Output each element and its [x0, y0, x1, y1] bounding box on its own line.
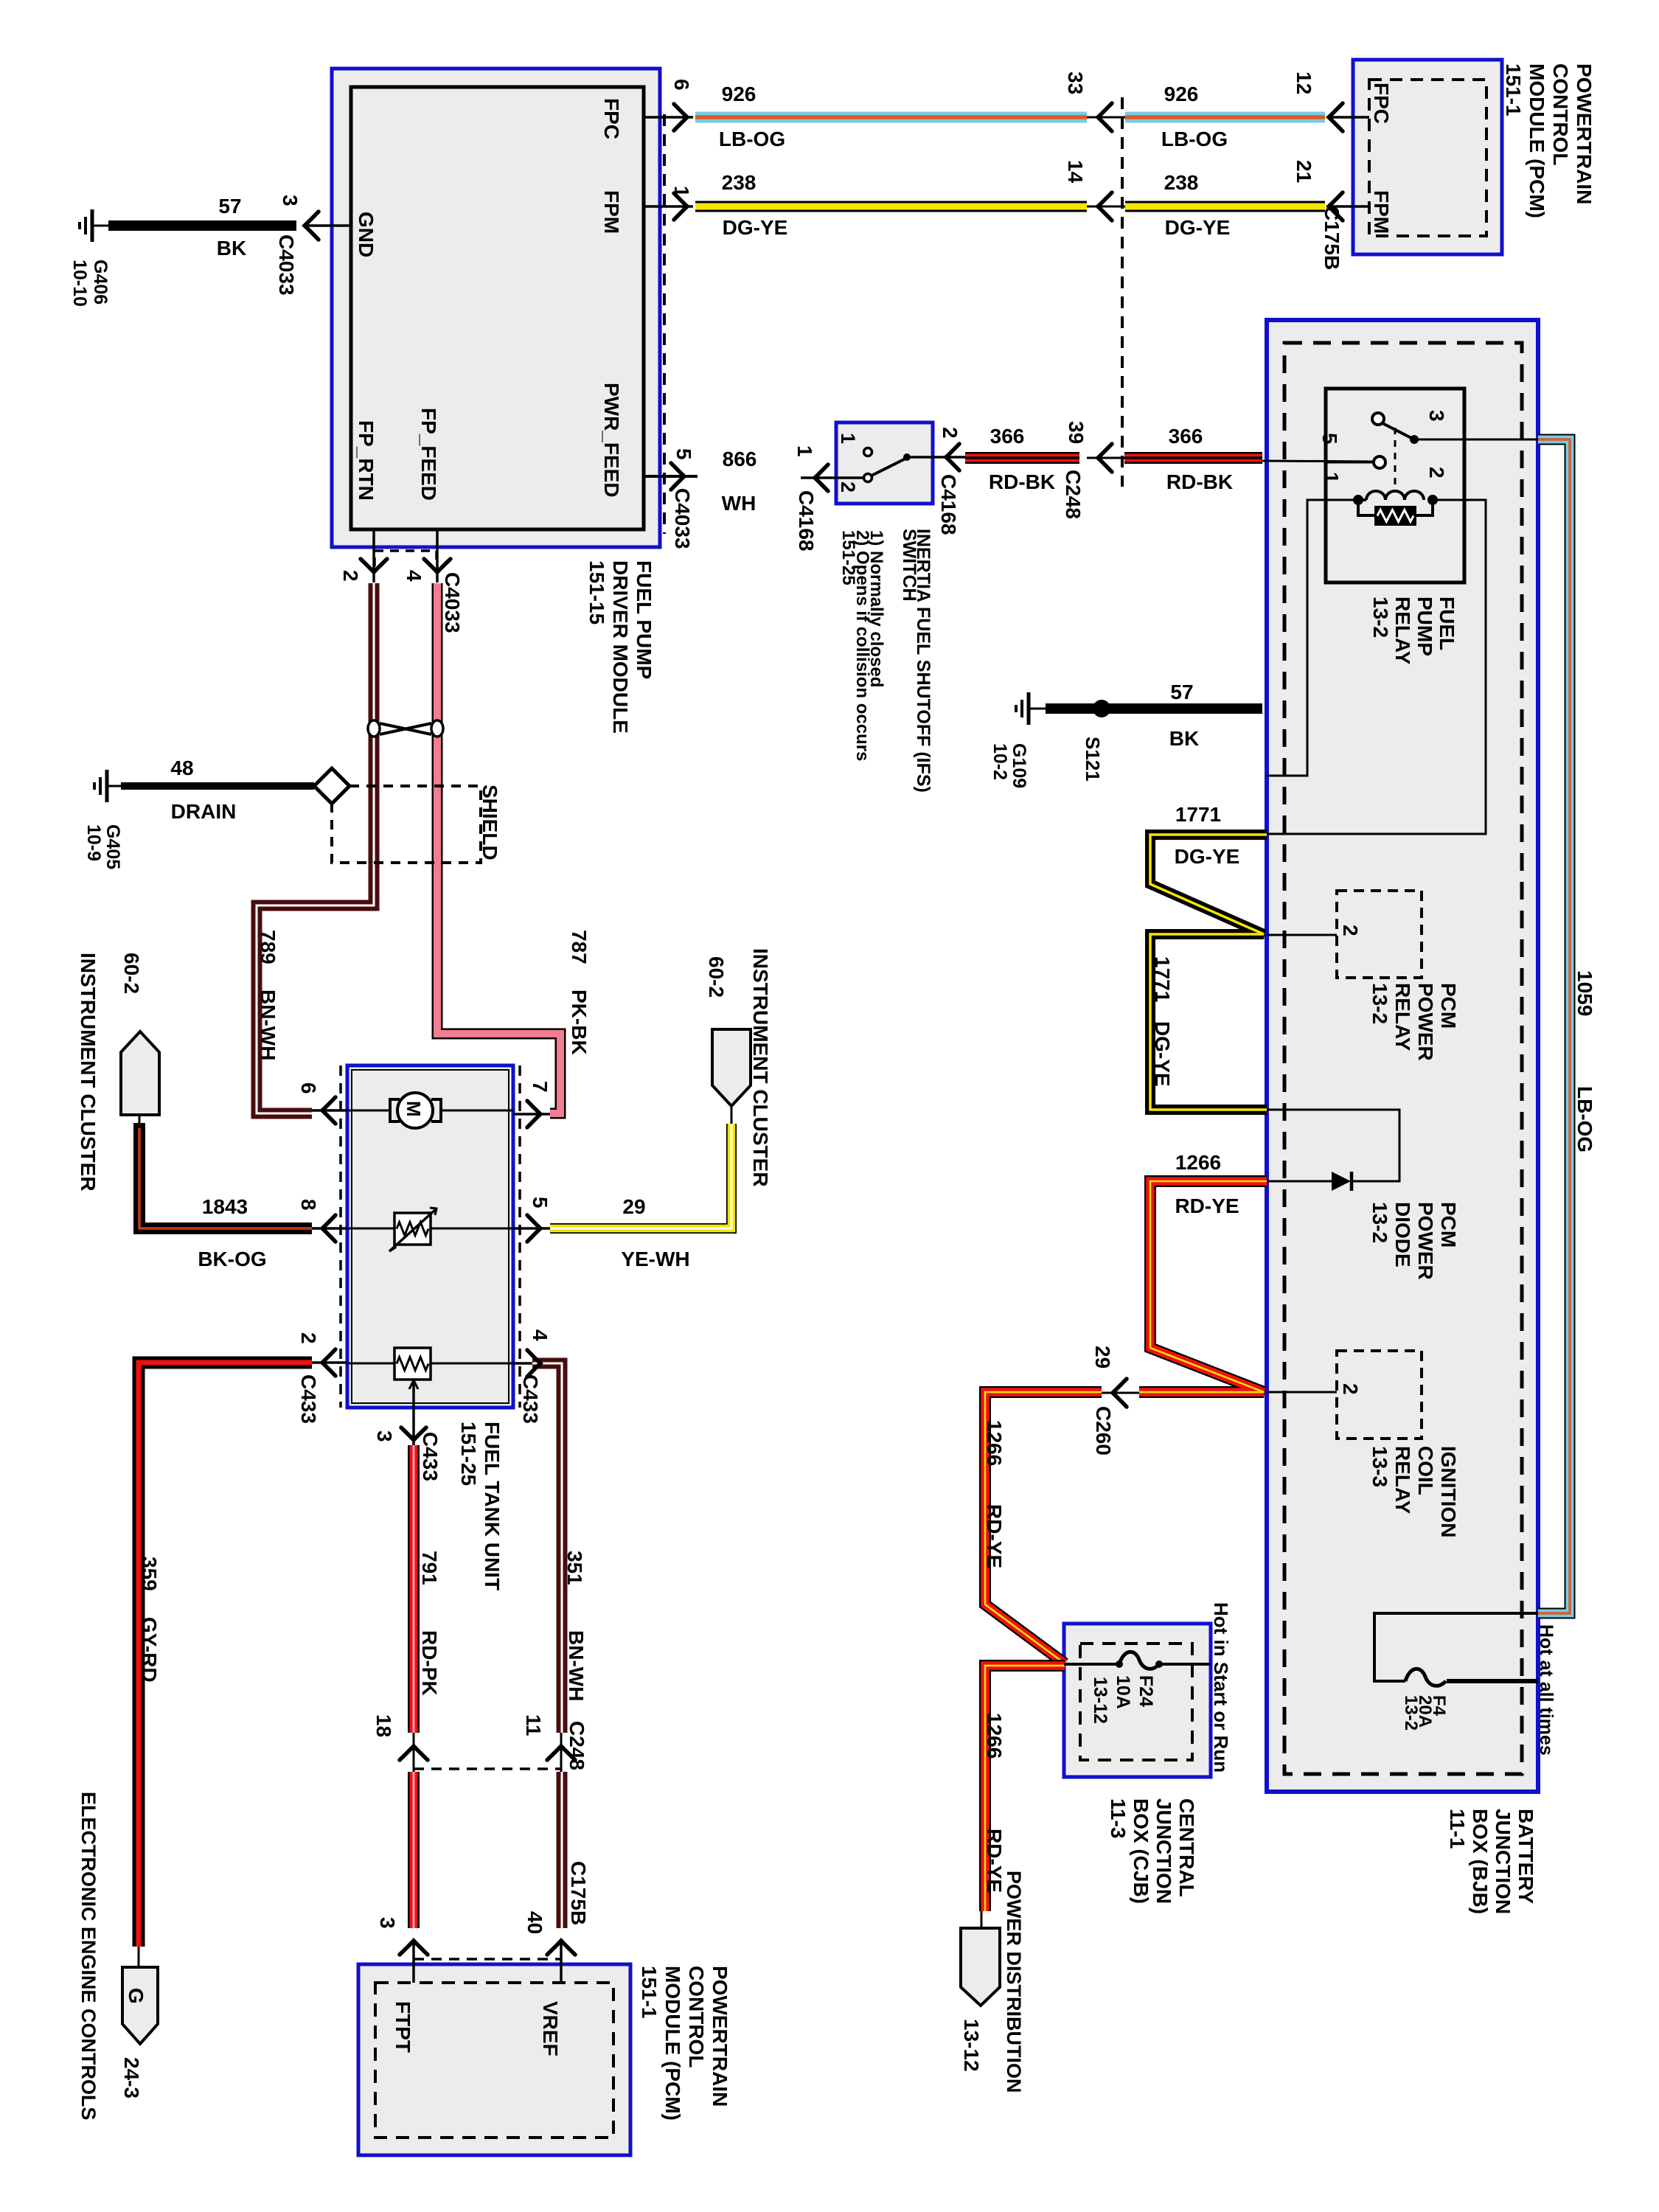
diode PCM power diode [1332, 1172, 1352, 1191]
wire 926 LB-OG segment 2 [1125, 112, 1325, 123]
label wire 238 color seg2 [1165, 216, 1231, 239]
wire FPM pin lead PCM [1329, 205, 1369, 208]
svg-text:Hot in Start or Run: Hot in Start or Run [1210, 1602, 1232, 1773]
wire FPC pin lead PCM [1329, 116, 1369, 119]
label wire 238 color seg1 [723, 216, 788, 239]
svg-text:DG-YE: DG-YE [1175, 845, 1240, 868]
label wire 366 color seg2 [1166, 470, 1233, 493]
label wire 238 number seg2 [1164, 171, 1199, 194]
wire tank pin 8 lead [312, 1227, 347, 1230]
label splice S121 [1082, 737, 1104, 782]
label pin 2 PCM power relay [1339, 925, 1362, 936]
svg-text:60-2: 60-2 [120, 953, 143, 994]
wire tank pin 5 lead [513, 1227, 550, 1230]
label connector C175B bottom [567, 1861, 590, 1925]
label wire 29 number [622, 1195, 645, 1218]
label pin 2 ignition coil relay [1339, 1383, 1362, 1395]
svg-text:G405: G405 [102, 824, 123, 869]
wire 238 DG-YE segment 1 [695, 201, 1087, 212]
arrow tank pin 3 C433 [401, 1427, 426, 1440]
svg-text:DG-YE: DG-YE [1151, 1021, 1174, 1087]
svg-text:BK: BK [1169, 727, 1199, 750]
wire 351 BN-WH upper [532, 1363, 562, 1733]
wire C260 arrow through line [1102, 1392, 1139, 1394]
relay K1 blade [1382, 423, 1464, 444]
wire 791 RD-PK upper [408, 1445, 420, 1733]
label wire 789 color [257, 990, 279, 1060]
label connector C260 [1092, 1406, 1115, 1455]
svg-text:14: 14 [1064, 160, 1087, 184]
label connector C4168 pin1 [795, 490, 818, 552]
svg-text:1266: 1266 [983, 1420, 1006, 1466]
module fuel tank unit box [347, 1065, 513, 1408]
relay K1 coil resistor [1358, 500, 1433, 526]
svg-text:791: 791 [418, 1551, 441, 1585]
wire F4 output to BJB edge [1447, 1679, 1538, 1683]
label connector C4033 at FP_FEED [441, 572, 464, 633]
svg-text:926: 926 [1164, 83, 1199, 105]
svg-text:2: 2 [1425, 467, 1448, 479]
wire 57 BK to G109 [1046, 703, 1262, 714]
label wire 57 color BK [217, 237, 246, 260]
wire VREF pin lead [560, 1939, 563, 1983]
svg-text:10-10: 10-10 [69, 260, 90, 307]
label offpage power distribution ref [960, 2019, 983, 2072]
label wire 1771 number 2 [1151, 956, 1174, 1002]
svg-text:LB-OG: LB-OG [1573, 1086, 1596, 1152]
svg-text:366: 366 [1169, 425, 1203, 448]
arrow GND C4033 pin 3 [305, 212, 319, 240]
label pin 2 IFS outside [939, 427, 961, 439]
label pin 18 [372, 1714, 395, 1737]
label wire 789 number [257, 930, 279, 964]
label module PCM bottom name [638, 1966, 731, 2121]
label fuse F24 name [1090, 1675, 1156, 1724]
wire 926 LB-OG segment 1 [695, 112, 1087, 123]
label wire 1266 color 2 [983, 1504, 1006, 1568]
connector boundary dashed line x1522 [1121, 97, 1124, 487]
svg-text:1771: 1771 [1175, 803, 1221, 826]
svg-text:57: 57 [218, 195, 241, 218]
svg-text:6: 6 [670, 79, 693, 91]
svg-text:C433: C433 [519, 1374, 542, 1424]
svg-text:3: 3 [279, 195, 302, 206]
svg-text:2: 2 [1339, 1383, 1362, 1395]
label wire 48 drain [171, 800, 237, 823]
wire 366 RD-BK segment 1 [965, 452, 1079, 464]
svg-text:BN-WH: BN-WH [257, 990, 279, 1060]
module PCM bottom inner dashed box [375, 1983, 613, 2138]
svg-text:RELAY: RELAY [1391, 1446, 1414, 1514]
label wire 926 number seg1 [722, 83, 757, 105]
label ground G405 [83, 824, 123, 869]
svg-text:1: 1 [670, 186, 693, 198]
arrow FPM FPDM pin 1 [674, 193, 687, 220]
offpage connector instrument cluster left [121, 1032, 159, 1115]
wire 791 RD-PK lower [408, 1772, 420, 1928]
label hot in start or run [1210, 1602, 1232, 1773]
label connector C248 bottom [566, 1721, 588, 1770]
arrow 926 at pin 33 [1098, 103, 1112, 131]
svg-text:13-2: 13-2 [1368, 983, 1391, 1024]
splice S121 [1093, 700, 1110, 717]
wire tank sender 2 line [347, 1363, 513, 1365]
svg-text:13-2: 13-2 [1368, 1202, 1391, 1243]
label wire 366 color seg1 [989, 470, 1055, 493]
svg-text:11-3: 11-3 [1107, 1798, 1130, 1839]
label pin 21 PCM [1293, 160, 1315, 183]
svg-text:10A: 10A [1113, 1675, 1133, 1709]
svg-text:INSTRUMENT CLUSTER: INSTRUMENT CLUSTER [77, 953, 100, 1192]
label pin 14 [1064, 160, 1087, 184]
svg-text:1266: 1266 [983, 1713, 1006, 1759]
svg-text:C4168: C4168 [795, 490, 818, 552]
svg-text:789: 789 [257, 930, 279, 964]
svg-text:IGNITION: IGNITION [1437, 1446, 1460, 1537]
label wire 1266 number 2 [983, 1420, 1006, 1466]
svg-text:351: 351 [563, 1551, 586, 1585]
wire 1266 RD-YE middle [985, 1392, 1102, 1663]
wire 366 lead to relay pin 5 [1262, 461, 1374, 462]
svg-text:48: 48 [170, 757, 193, 779]
svg-text:RD-PK: RD-PK [418, 1630, 441, 1696]
svg-text:DG-YE: DG-YE [1165, 216, 1231, 239]
switch IFS contact 1 circle [864, 448, 872, 456]
label pin GND [355, 212, 378, 257]
label offpage instrument cluster right [705, 948, 772, 1187]
label wire 359 number [138, 1557, 161, 1591]
arrow 1266 at pin 29 C260 [1113, 1379, 1127, 1407]
arrow IFS pin 2 C4168 [946, 444, 959, 470]
svg-text:21: 21 [1293, 160, 1315, 183]
svg-text:151-1: 151-1 [638, 1966, 661, 2019]
label relay PCM power relay name [1368, 983, 1460, 1061]
label ground G406 [69, 260, 111, 307]
ground G109 [1016, 692, 1046, 725]
label wire 791 number [418, 1551, 441, 1585]
svg-text:DRIVER MODULE: DRIVER MODULE [609, 560, 632, 734]
svg-text:CONTROL: CONTROL [685, 1966, 708, 2067]
svg-text:RD-BK: RD-BK [1166, 470, 1233, 493]
svg-text:FUEL: FUEL [1436, 597, 1458, 650]
label relay ignition coil relay name [1368, 1446, 1460, 1537]
label pin 5 FPDM [672, 448, 695, 460]
svg-text:13-2: 13-2 [1369, 597, 1392, 638]
arrow 791 at pin 18 C248 [400, 1746, 428, 1760]
relay K1 coil terminal 2 dot [1427, 495, 1438, 505]
svg-text:366: 366 [990, 425, 1025, 448]
label pin 2 FPDM [339, 570, 362, 582]
svg-text:Hot at all times: Hot at all times [1536, 1624, 1557, 1756]
label connector C433 right [519, 1374, 542, 1424]
wire relay pin 2 coil to 1771 exit [1267, 500, 1486, 834]
svg-text:POWER DISTRIBUTION: POWER DISTRIBUTION [1003, 1871, 1025, 2093]
wire 1266 pentagon lead [981, 1911, 983, 1928]
label wire 366 number seg1 [990, 425, 1025, 448]
label fuse F4 name [1401, 1695, 1449, 1731]
svg-text:RD-BK: RD-BK [989, 470, 1055, 493]
svg-text:10-9: 10-9 [83, 824, 104, 861]
svg-text:1: 1 [793, 445, 816, 457]
svg-text:G406: G406 [90, 260, 111, 305]
label connector C248 top [1062, 470, 1085, 519]
label pin FPC PCM [1370, 83, 1393, 124]
svg-text:C248: C248 [566, 1721, 588, 1770]
label wire 1843 number [202, 1195, 248, 1218]
svg-text:18: 18 [372, 1714, 395, 1737]
label shield [479, 785, 501, 860]
connector C248 dashed boundary bottom [414, 1767, 561, 1770]
arrow FTPT pin 3 C175B [400, 1941, 428, 1955]
svg-text:FP_RTN: FP_RTN [355, 420, 378, 501]
svg-text:BOX (BJB): BOX (BJB) [1469, 1809, 1492, 1914]
svg-text:BN-WH: BN-WH [565, 1630, 588, 1701]
svg-text:RD-YE: RD-YE [1175, 1194, 1239, 1217]
svg-text:DIODE: DIODE [1391, 1202, 1414, 1267]
wire 48 DRAIN [121, 782, 314, 790]
svg-text:VREF: VREF [539, 2001, 562, 2056]
label wire 866 number [723, 448, 757, 470]
svg-text:3: 3 [1425, 410, 1448, 422]
label pin 3 C4033 [279, 195, 302, 206]
fuse F4 [1405, 1669, 1446, 1686]
label wire 787 color [568, 990, 591, 1055]
svg-text:151-25: 151-25 [838, 530, 858, 585]
wire FTPT pin lead [412, 1939, 415, 1983]
arrow tank pin 8 [322, 1215, 335, 1242]
svg-text:JUNCTION: JUNCTION [1152, 1798, 1175, 1904]
svg-text:1771: 1771 [1151, 956, 1174, 1002]
wire 359 pentagon lead [138, 1947, 140, 1967]
svg-text:FPC: FPC [600, 98, 623, 139]
svg-text:PWR_FEED: PWR_FEED [600, 383, 623, 498]
svg-text:GND: GND [355, 212, 378, 257]
wire FP_RTN pin lead [372, 529, 375, 582]
svg-text:MODULE (PCM): MODULE (PCM) [661, 1966, 684, 2121]
arrow PWR_FEED pin 5 [671, 463, 684, 490]
offpage connector G electronic engine controls [122, 1967, 158, 2044]
arrow FP_FEED pin 4 [424, 559, 451, 572]
label pin 11 [522, 1714, 545, 1736]
wire 1266 RD-YE upper [1139, 1181, 1267, 1392]
label connector C175B top [1321, 206, 1343, 270]
svg-text:4: 4 [529, 1329, 552, 1341]
wire 238 crossing line [1087, 206, 1125, 208]
svg-text:1: 1 [1320, 472, 1343, 484]
svg-text:787: 787 [568, 930, 591, 964]
svg-text:C4033: C4033 [441, 572, 464, 633]
svg-text:151-25: 151-25 [457, 1422, 480, 1486]
relay PCM power relay dashed box [1337, 891, 1422, 978]
label offpage instrument cluster left [77, 953, 143, 1192]
wire 29 YE-WH [550, 1124, 731, 1228]
arrow VREF pin 40 C175B [547, 1941, 575, 1955]
arrow tank pin 7 [527, 1101, 540, 1127]
label pin FTPT [392, 2001, 414, 2053]
relay ignition coil relay dashed box [1337, 1351, 1422, 1439]
label pin 12 PCM [1293, 72, 1315, 94]
wire FPC pin lead FPDM [644, 116, 693, 119]
svg-text:12: 12 [1293, 72, 1315, 94]
arrow tank pin 5 [527, 1215, 540, 1242]
svg-text:DG-YE: DG-YE [723, 216, 788, 239]
svg-text:13-2: 13-2 [1401, 1695, 1421, 1731]
shield dashed box [332, 786, 481, 863]
wire relay pin 3 to BJB edge [1416, 439, 1538, 441]
svg-text:ELECTRONIC ENGINE CONTROLS: ELECTRONIC ENGINE CONTROLS [77, 1792, 100, 2121]
svg-text:CONTROL: CONTROL [1549, 63, 1572, 165]
svg-text:INSTRUMENT CLUSTER: INSTRUMENT CLUSTER [749, 948, 772, 1187]
svg-text:39: 39 [1065, 421, 1088, 444]
svg-text:C4168: C4168 [937, 474, 960, 535]
wire tank pin 3 lead [412, 1380, 415, 1445]
svg-text:24-3: 24-3 [120, 2057, 143, 2098]
wire F4 feed from 1059 [1374, 1613, 1538, 1681]
svg-text:POWER: POWER [1414, 983, 1437, 1061]
label pin FPM PCM [1370, 190, 1393, 234]
svg-text:C175B: C175B [1321, 206, 1343, 270]
svg-text:SWITCH: SWITCH [899, 529, 919, 602]
wire 359 GY-RD [139, 1363, 312, 1947]
label module BJB name [1446, 1809, 1537, 1914]
label wire 1266 color 3 [983, 1829, 1006, 1893]
label wire 1771 color 1 [1175, 845, 1240, 868]
label pin 39 [1065, 421, 1088, 444]
relay K1 coil arcs [1358, 491, 1424, 500]
wire 789 BN-WH [257, 583, 374, 1113]
label wire 1266 number 3 [983, 1713, 1006, 1759]
wire 351 BN-WH lower [557, 1772, 568, 1928]
svg-text:BATTERY: BATTERY [1514, 1809, 1537, 1904]
svg-text:4: 4 [403, 570, 425, 582]
wire PWR_FEED pin lead [644, 475, 698, 478]
svg-text:C433: C433 [297, 1374, 320, 1424]
label connector C433 pin3 [419, 1432, 442, 1481]
svg-text:YE-WH: YE-WH [621, 1248, 689, 1270]
svg-text:COIL: COIL [1414, 1446, 1437, 1495]
wire tank pin 7 lead [513, 1113, 550, 1116]
wire 1266 RD-YE lower [985, 1666, 1065, 1911]
label pin 2 relay [1425, 467, 1448, 479]
wire 1771 DG-YE [1150, 835, 1267, 1110]
arrow tank pin 6 [322, 1097, 335, 1124]
wire F24 line left [1064, 1663, 1119, 1666]
label ground G109 [990, 743, 1029, 788]
wire 366 crossing line [1087, 457, 1124, 459]
svg-text:FPM: FPM [600, 190, 623, 234]
label pin 3 relay [1425, 410, 1448, 422]
label pin 6 tank [297, 1082, 320, 1094]
label pin 8 tank [297, 1199, 320, 1211]
svg-text:151-15: 151-15 [585, 560, 608, 625]
label wire 866 color WH [722, 492, 757, 515]
svg-text:11-1: 11-1 [1446, 1809, 1469, 1849]
svg-text:866: 866 [723, 448, 757, 470]
label wire 1266 color 1 [1175, 1194, 1239, 1217]
svg-text:13-12: 13-12 [1090, 1677, 1110, 1724]
wire 926 crossing line [1087, 116, 1125, 119]
svg-text:11: 11 [522, 1714, 545, 1736]
label pin 4 FPDM [403, 570, 425, 582]
label connector C4168 pin2 [937, 474, 960, 535]
label switch IFS name [838, 529, 933, 793]
svg-text:29: 29 [622, 1195, 645, 1218]
label wire 1843 color [198, 1248, 266, 1270]
label wire 787 number [568, 930, 591, 964]
svg-text:926: 926 [722, 83, 757, 105]
svg-text:G: G [125, 1988, 147, 2004]
label hot at all times [1536, 1624, 1557, 1756]
label wire 1059 [1573, 970, 1596, 1152]
svg-text:1266: 1266 [1175, 1151, 1221, 1174]
label pin 6 FPDM [670, 79, 693, 91]
switch IFS box (Inertia Fuel Shutoff) [836, 422, 933, 504]
wire tank pin 2 lead [312, 1361, 347, 1364]
label pin 5 tank [529, 1197, 552, 1208]
label pin 3 PCM bottom [376, 1917, 399, 1929]
wire 1843 pentagon lead [139, 1115, 141, 1128]
svg-text:359: 359 [138, 1557, 161, 1591]
svg-text:FPC: FPC [1370, 83, 1393, 124]
svg-text:DRAIN: DRAIN [171, 800, 237, 823]
svg-text:JUNCTION: JUNCTION [1492, 1809, 1514, 1914]
wire 351 C248 crossing lead [560, 1733, 563, 1772]
relay K1 actuator dashed link [1394, 428, 1397, 493]
label module fuel tank unit name [457, 1422, 504, 1590]
svg-text:BK-OG: BK-OG [198, 1248, 266, 1270]
connector C175B dashed boundary bottom [414, 1958, 561, 1961]
wire tank pin 6 lead [312, 1109, 347, 1112]
module PCM top inner dashed box [1369, 80, 1486, 236]
label wire 1266 number 1 [1175, 1151, 1221, 1174]
resistor fuel tank pressure sender [394, 1348, 431, 1389]
arrow 238 at PCM pin 21 [1329, 192, 1343, 220]
offpage connector instrument cluster right [712, 1029, 751, 1106]
label wire 366 number seg2 [1169, 425, 1203, 448]
svg-text:60-2: 60-2 [705, 956, 728, 998]
svg-text:2: 2 [1339, 925, 1362, 936]
wire F24 line right [1159, 1663, 1211, 1666]
svg-text:CENTRAL: CENTRAL [1175, 1798, 1198, 1897]
wire IFS pin 1 lead [801, 476, 864, 479]
ground G406 [80, 209, 108, 242]
svg-text:WH: WH [722, 492, 757, 515]
svg-text:BK: BK [217, 237, 246, 260]
wire relay pin 1 coil to 57 BK [1267, 500, 1354, 776]
arrow 926 at PCM pin 12 [1329, 103, 1343, 131]
label pin 33 [1064, 72, 1087, 94]
module CJB inner dashed box [1080, 1644, 1192, 1760]
wire FP_FEED pin lead [436, 529, 439, 582]
wire PCM power relay pin 2 lead [1267, 934, 1337, 936]
wire PCM power diode circuit [1267, 1110, 1399, 1181]
svg-text:33: 33 [1064, 72, 1087, 94]
svg-text:C4033: C4033 [275, 234, 298, 296]
relay K1 contact 3 circle [1372, 413, 1384, 425]
svg-text:LB-OG: LB-OG [719, 128, 785, 150]
svg-text:57: 57 [1170, 681, 1193, 703]
svg-text:F24: F24 [1135, 1675, 1156, 1707]
connector C433 dashed boundary left [339, 1065, 342, 1408]
svg-text:M: M [403, 1101, 425, 1117]
ground G405 [94, 770, 121, 802]
module FPDM outer box (Fuel Pump Driver Module) [332, 69, 660, 547]
label module FPDM name [585, 560, 655, 734]
wire 366 RD-BK segment 2 [1124, 452, 1262, 464]
label wire 351 color [565, 1630, 588, 1701]
svg-text:S121: S121 [1082, 737, 1104, 782]
label pin 1 relay [1320, 472, 1343, 484]
